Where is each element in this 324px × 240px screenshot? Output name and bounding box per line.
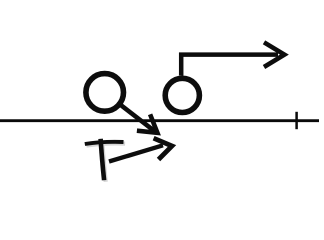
route arrow shaft from O2 (up then right) <box>181 55 278 76</box>
hand-drawn letter T: stem <box>101 139 105 180</box>
player circle O1 (left) <box>86 74 124 112</box>
hand-drawn arrow shaft from T <box>109 145 163 161</box>
route arrow shaft from O1 (diagonal down-right) <box>120 104 155 131</box>
hand-drawn letter T: top bar <box>85 142 124 144</box>
hash tick mark <box>295 112 298 129</box>
player circle O2 (right) <box>165 78 199 112</box>
line of scrimmage <box>0 119 319 122</box>
route arrowhead (down-right chevron) <box>137 114 158 133</box>
hand-drawn arrowhead chevron <box>154 138 172 159</box>
marker shadow for letter T <box>86 140 125 181</box>
route arrowhead (right-pointing chevron) <box>264 42 284 67</box>
